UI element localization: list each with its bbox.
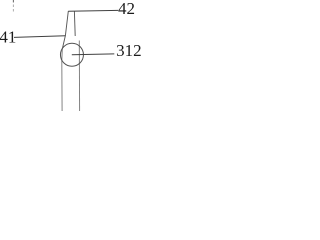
svg-text:42: 42 <box>118 0 135 18</box>
svg-text:41: 41 <box>0 28 16 47</box>
svg-text:312: 312 <box>116 41 141 60</box>
